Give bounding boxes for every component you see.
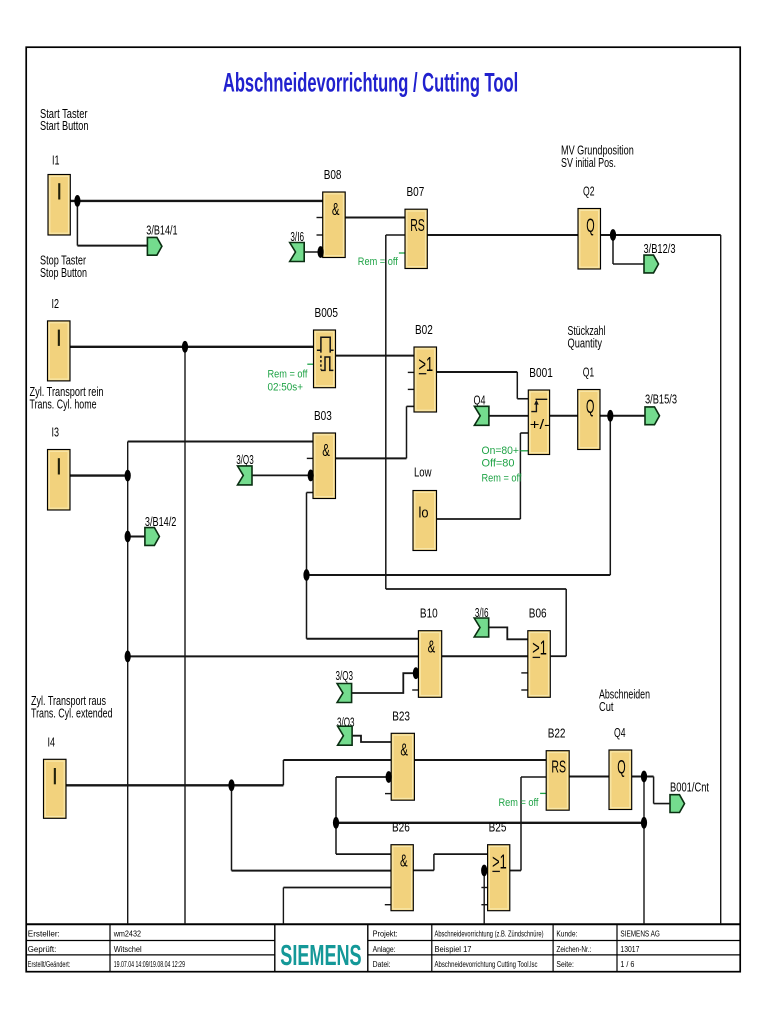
title block table <box>26 924 740 972</box>
wire B23 out to B22 S <box>414 759 546 761</box>
junction at Q4 output <box>641 771 647 783</box>
wire to 3/B12/3 flag <box>613 263 644 265</box>
output block Q2 <box>578 184 601 270</box>
svg-text:On=80+: On=80+ <box>482 445 520 457</box>
svg-text:>1: >1 <box>532 638 547 660</box>
svg-text:Off=80: Off=80 <box>482 457 515 469</box>
output block Q1 <box>578 365 600 450</box>
junction at B10 branch <box>125 651 131 663</box>
junction at feedback y822.8 <box>641 817 647 829</box>
input connector 3/I6 at B08 <box>290 230 305 262</box>
svg-text:&: & <box>428 637 436 657</box>
wire to B26 in2 <box>232 870 392 872</box>
wire B22 R from below <box>520 777 522 871</box>
svg-text:B26: B26 <box>392 820 410 835</box>
wire into B25 in1 <box>434 853 488 855</box>
wire B07 out to Q2 <box>427 234 578 236</box>
wire vertical x336 <box>335 777 337 854</box>
output block Q4 <box>609 725 632 810</box>
input block I1 <box>48 153 70 236</box>
wire B005 out to B02 in1 <box>336 355 414 357</box>
svg-text:B25: B25 <box>489 820 507 835</box>
stub B25 in4 <box>481 904 487 906</box>
param tick B22 <box>540 792 546 794</box>
wire down then right to B10 in1 <box>307 638 419 640</box>
junction at Q2 output <box>610 229 616 241</box>
wire long vertical right to titleblock <box>720 235 722 923</box>
wire into B03 in4 <box>307 492 314 494</box>
svg-text:3/B12/3: 3/B12/3 <box>644 242 676 256</box>
title block row labels left <box>28 930 185 969</box>
comment MV Grundposition / SV initial Pos. <box>561 144 634 170</box>
junction at x336 feedback <box>333 817 339 829</box>
svg-text:B23: B23 <box>392 708 410 723</box>
wire into B07 R <box>386 234 405 236</box>
RS latch B07 <box>405 184 427 268</box>
stub B06 in4 <box>521 689 527 691</box>
wire I3 vertical long <box>127 442 129 924</box>
input connector 3/I6 at B06 <box>474 606 489 637</box>
junction at B10 in3 <box>413 667 419 679</box>
wire 3/Q3 to B23 in1 jog <box>352 736 391 742</box>
wire 3/Q3 to B10 in3 jog <box>352 673 419 693</box>
OR gate B25 <box>488 820 510 911</box>
svg-text:B06: B06 <box>529 606 547 621</box>
svg-text:Q1: Q1 <box>583 365 595 380</box>
junction at feedback y575 <box>303 569 309 581</box>
wire feedback horizontal y822.8 <box>336 822 644 824</box>
OR gate B02 <box>414 322 437 412</box>
svg-text:Q: Q <box>586 216 594 237</box>
output connector 3/B14/2 <box>145 515 177 546</box>
comment Zyl. Transport raus / Trans. Cyl. extended <box>31 694 113 720</box>
svg-text:3/Q3: 3/Q3 <box>336 669 354 683</box>
input connector 3/Q3 at B10 <box>336 669 354 703</box>
svg-text:SV initial Pos.: SV initial Pos. <box>561 156 616 170</box>
svg-text:I2: I2 <box>52 296 60 311</box>
input block I4 <box>44 734 67 818</box>
svg-text:Rem = off: Rem = off <box>358 256 399 268</box>
svg-text:Cut: Cut <box>599 700 614 714</box>
comment Zyl. Transport rein / Trans. Cyl. home <box>30 385 104 411</box>
param tick B07 <box>399 252 405 254</box>
OR gate B06 <box>528 606 551 698</box>
wire lo out <box>437 518 521 520</box>
wire B22 out to Q4 <box>569 776 609 778</box>
svg-text:+/-: +/- <box>530 416 550 432</box>
AND gate B23 <box>391 708 414 800</box>
junction at I2 output <box>182 341 188 353</box>
junction at B03 in3 <box>308 470 314 482</box>
wire into B001 in1 <box>517 398 528 400</box>
parameter text B005 Rem = off / 02:50s+ <box>268 369 309 394</box>
stub B08 in3 <box>317 234 323 236</box>
svg-text:3/Q3: 3/Q3 <box>236 453 254 467</box>
svg-text:B02: B02 <box>415 322 433 337</box>
junction at I1 output <box>74 195 80 207</box>
svg-text:3/B14/1: 3/B14/1 <box>146 223 177 237</box>
svg-text:19.07.04 14:09/19.08.04 12:29: 19.07.04 14:09/19.08.04 12:29 <box>114 960 185 969</box>
wire into B26 in1 <box>336 853 391 855</box>
input block I2 <box>48 296 71 381</box>
svg-text:Projekt:: Projekt: <box>373 930 398 939</box>
svg-text:B08: B08 <box>324 167 342 182</box>
svg-text:I1: I1 <box>52 153 60 168</box>
svg-text:Abschneidevorrichtung / Cuttin: Abschneidevorrichtung / Cutting Tool <box>223 67 518 97</box>
output connector B001/Cnt <box>670 781 709 813</box>
wire B10 out to B06 in2 <box>442 655 528 657</box>
parameter text B001 On/Off/Rem <box>482 445 523 485</box>
comment Start Taster / Start Button <box>40 107 89 133</box>
wire up to B001 in3 <box>519 433 521 519</box>
wire into B22 R <box>521 776 546 778</box>
svg-text:SIEMENS: SIEMENS <box>280 940 361 972</box>
svg-text:Quantity: Quantity <box>568 336 603 350</box>
svg-text:I4: I4 <box>48 734 56 749</box>
junction at 3/B14/2 branch <box>125 531 131 543</box>
stub B26 in4 <box>385 904 391 906</box>
wire I1 branch down <box>76 201 78 246</box>
wire to 3/B14/1 flag <box>77 245 147 247</box>
junction at B23 in3 <box>386 771 392 783</box>
wire I2 long vertical to titleblock <box>184 347 186 924</box>
svg-text:lo: lo <box>419 506 429 522</box>
AND gate B08 <box>323 167 346 258</box>
junction at Q1 output <box>607 410 613 422</box>
wire up from B06 out <box>565 589 567 656</box>
svg-text:B001: B001 <box>529 365 553 380</box>
wire Q4 feedback vertical to titleblock <box>643 777 645 924</box>
wire B001 out to Q1 <box>550 415 578 417</box>
wire I2 out to B005 <box>70 346 314 348</box>
input connector Q4 at B001 <box>474 393 489 425</box>
svg-text:02:50s+: 02:50s+ <box>268 382 304 394</box>
stub B03 in2 <box>307 457 313 459</box>
wire B26 in3 from below <box>282 888 284 924</box>
svg-text:B07: B07 <box>407 184 425 199</box>
svg-text:Witschel: Witschel <box>114 945 142 954</box>
svg-text:I3: I3 <box>52 425 60 440</box>
wire 3/I6 flag jog <box>488 627 529 639</box>
svg-text:Q: Q <box>586 397 594 418</box>
stub B02 in3 <box>408 388 414 390</box>
stub B10 in4 <box>412 689 418 691</box>
wire feedback horizontal y575 <box>307 574 611 576</box>
svg-text:13017: 13017 <box>620 945 639 954</box>
svg-text:1 / 6: 1 / 6 <box>620 960 634 969</box>
wire B26 out <box>413 869 434 871</box>
svg-text:SIEMENS AG: SIEMENS AG <box>620 930 660 939</box>
junction at I3 output <box>125 470 131 482</box>
wire vertical x306 up to B03 in4 <box>306 493 308 639</box>
wire B25 out <box>510 870 521 872</box>
svg-text:Trans. Cyl. home: Trans. Cyl. home <box>30 397 97 411</box>
svg-text:>1: >1 <box>492 852 507 874</box>
wire Q2 branch down <box>612 235 614 264</box>
input block I3 <box>48 425 71 511</box>
wire up to B25 in1 <box>433 854 435 870</box>
svg-text:Abschneidevorrichtung Cutting: Abschneidevorrichtung Cutting Tool.lsc <box>435 960 538 969</box>
wire to B001/Cnt flag <box>654 803 670 805</box>
wire I1 out to B08 in1 <box>70 200 323 202</box>
wire Q4 out <box>632 776 654 778</box>
level block lo <box>413 465 437 551</box>
wire I3 branch to B10 in2 long <box>128 655 419 657</box>
wire into B001 in3 <box>520 432 528 434</box>
wire B25 in2 from below <box>483 871 485 924</box>
svg-text:Abschneidevorrichtung (z.B. Zü: Abschneidevorrichtung (z.B. Zündschnüre) <box>435 930 544 939</box>
pulse relay B005 <box>314 305 339 388</box>
wire to 3/B14/2 flag <box>128 536 145 538</box>
stub B08 in2 <box>317 217 323 219</box>
junction at I4 output <box>228 779 234 791</box>
param tick B001 <box>520 450 528 452</box>
wire Q1 branch down <box>609 416 611 575</box>
svg-text:Rem = off: Rem = off <box>268 369 309 381</box>
wire into B26 in3 <box>283 887 391 889</box>
svg-text:Beispiel 17: Beispiel 17 <box>435 945 472 954</box>
svg-text:&: & <box>400 740 408 760</box>
svg-text:>1: >1 <box>419 354 434 376</box>
svg-text:Start Button: Start Button <box>40 119 89 133</box>
input connector 3/Q3 at B23 <box>337 715 355 745</box>
title block fields right <box>373 930 660 969</box>
wire I4 out <box>66 784 283 786</box>
stub B25 in3 <box>481 887 487 889</box>
svg-text:Geprüft:: Geprüft: <box>28 945 57 954</box>
wire I3 up branch to B03 in1 <box>128 441 313 443</box>
svg-text:Q4: Q4 <box>614 725 626 740</box>
wire into B23 in3 <box>336 776 391 778</box>
svg-text:Rem = off: Rem = off <box>482 472 523 484</box>
wire Q2 out to right <box>601 234 721 236</box>
AND gate B10 <box>418 606 441 698</box>
wire B07 R vertical from below <box>385 235 387 589</box>
comment Stückzahl / Quantity <box>568 324 606 350</box>
output connector 3/B15/3 <box>645 393 677 425</box>
wire up to B23 in2 <box>282 760 284 785</box>
svg-text:Rem = off: Rem = off <box>499 797 540 809</box>
svg-text:B005: B005 <box>315 305 339 320</box>
wire B03 out <box>336 457 407 459</box>
svg-text:Trans. Cyl. extended: Trans. Cyl. extended <box>31 706 113 720</box>
svg-text:Datei:: Datei: <box>373 960 391 969</box>
svg-text:Low: Low <box>414 465 432 480</box>
svg-text:Kunde:: Kunde: <box>556 930 577 939</box>
wire down to B001 in1 <box>516 372 518 399</box>
svg-text:RS: RS <box>551 757 566 777</box>
svg-text:Erstellt/Geändert:: Erstellt/Geändert: <box>28 960 71 969</box>
wire into B02 in4 <box>407 405 415 407</box>
svg-text:Q4: Q4 <box>474 393 486 407</box>
svg-text:Seite:: Seite: <box>556 960 574 969</box>
output connector 3/B14/1 <box>146 223 177 255</box>
svg-text:3/B14/2: 3/B14/2 <box>145 515 177 529</box>
up-down counter B001 <box>528 365 553 455</box>
comment Stop Taster / Stop Button <box>40 254 87 280</box>
svg-text:&: & <box>332 199 340 219</box>
AND gate B03 <box>313 408 336 499</box>
wire I3 out <box>70 474 128 476</box>
junction at B08 in4 <box>318 246 324 258</box>
wire B06 out <box>551 655 566 657</box>
svg-text:3/B15/3: 3/B15/3 <box>645 393 677 407</box>
wire B02 out <box>437 371 518 373</box>
wire down jog to B001/Cnt <box>653 777 655 804</box>
svg-text:&: & <box>322 440 330 460</box>
AND gate B26 <box>391 820 413 911</box>
svg-text:B001/Cnt: B001/Cnt <box>670 781 709 795</box>
wire Q1 out to 3/B15/3 flag <box>600 415 645 417</box>
junction at B25 in2 <box>481 865 487 877</box>
svg-text:RS: RS <box>410 215 425 235</box>
wire I4 branch down <box>231 785 233 870</box>
svg-text:&: & <box>400 851 408 871</box>
output connector 3/B12/3 <box>644 242 676 273</box>
svg-text:Q: Q <box>617 758 625 779</box>
svg-text:Stop Button: Stop Button <box>40 266 87 280</box>
wire B08 out to B07 S <box>345 217 405 219</box>
input connector 3/Q3 at B03 <box>236 453 254 485</box>
svg-text:B10: B10 <box>420 606 438 621</box>
stub B06 in3 <box>521 672 527 674</box>
svg-text:Zeichen-Nr.:: Zeichen-Nr.: <box>556 945 591 954</box>
stub B02 in2 <box>408 371 414 373</box>
wire left y589 to B07 R line <box>386 588 566 590</box>
svg-text:Q2: Q2 <box>583 184 595 199</box>
wire 3/Q3 to B03 in3 <box>252 474 313 476</box>
param tick B005 <box>307 363 313 365</box>
svg-text:Anlage:: Anlage: <box>373 945 396 954</box>
svg-text:Ersteller:: Ersteller: <box>28 930 60 939</box>
RS latch B22 <box>546 726 569 811</box>
stub B23 in4 <box>385 793 391 795</box>
wire up to B02 in4 <box>406 406 408 458</box>
svg-text:B22: B22 <box>548 726 566 741</box>
wire Q4 flag to B001 in2 <box>489 415 528 417</box>
svg-text:wm2432: wm2432 <box>113 930 141 939</box>
svg-text:B03: B03 <box>314 408 332 423</box>
wire 3/I6 to B08 in4 <box>304 251 323 253</box>
comment Abschneiden / Cut <box>599 688 650 714</box>
wire into B23 in2 <box>283 759 391 761</box>
